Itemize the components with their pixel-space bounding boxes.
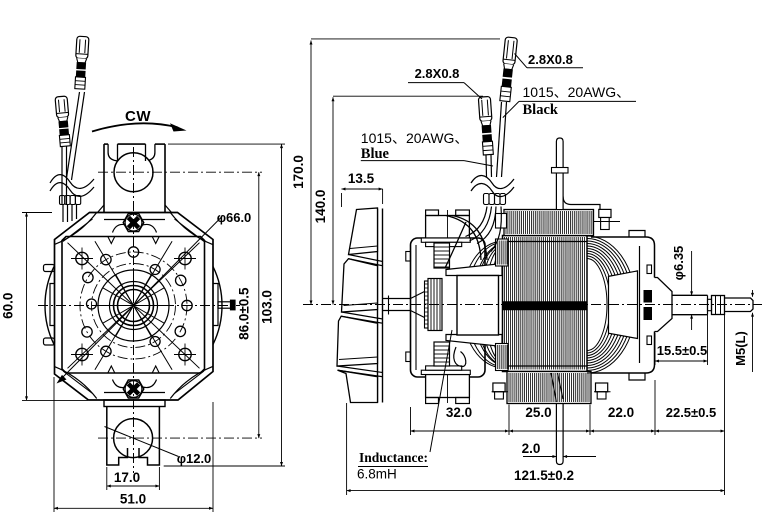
commutator — [425, 281, 429, 328]
dim 32.0 — [411, 430, 510, 432]
spade terminal D (side view, upper) — [499, 37, 518, 102]
threaded tip M5 — [725, 298, 754, 312]
front view: stator lamination square — [62, 237, 205, 374]
svg-text:140.0: 140.0 — [313, 190, 328, 224]
rear end bracket — [591, 237, 655, 373]
extended radial lines through holes — [95, 241, 172, 370]
left coil side stubs — [496, 239, 509, 266]
fan blade 2 — [342, 259, 378, 312]
svg-text:103.0: 103.0 — [260, 290, 275, 324]
svg-text:25.0: 25.0 — [525, 405, 551, 420]
brush holder boxes — [434, 243, 450, 268]
centerline overlays — [303, 304, 762, 306]
dim 51.0 — [53, 377, 55, 512]
svg-text:Black: Black — [523, 102, 559, 118]
wire loop below commutator — [454, 347, 466, 367]
shaft hex — [712, 296, 725, 315]
cable grommet (side view) — [484, 194, 490, 205]
plate chamfer inner flange lines — [63, 219, 93, 242]
front view centerlines — [38, 305, 240, 307]
front end-bracket housing — [411, 238, 486, 377]
svg-text:2.8X0.8: 2.8X0.8 — [415, 66, 460, 81]
dim 170.0 — [311, 38, 500, 40]
rivet holes inner ring — [150, 265, 160, 275]
bolt pitch circles (dash-dot) — [92, 264, 176, 348]
shaft end pin (front view) — [218, 302, 231, 308]
dim 60.0 — [22, 212, 52, 214]
brush lead wires — [452, 216, 487, 261]
svg-text:φ66.0: φ66.0 — [217, 210, 252, 225]
wire break squiggle (side view) — [471, 175, 514, 188]
fan blade 4 — [338, 370, 378, 402]
svg-text:CW: CW — [125, 108, 151, 125]
wires to terminals (side view) — [485, 155, 488, 177]
armature core — [457, 276, 499, 336]
svg-text:51.0: 51.0 — [120, 492, 146, 507]
dim 140.0 — [333, 95, 483, 97]
dim 13.5 — [341, 193, 343, 207]
lead wires (front view) — [61, 146, 63, 204]
mounting tab top — [556, 138, 563, 209]
cable grommet (front view) — [60, 196, 65, 205]
svg-text:1015、20AWG、: 1015、20AWG、 — [523, 84, 631, 100]
svg-text:86.0±0.5: 86.0±0.5 — [237, 287, 252, 340]
svg-text:170.0: 170.0 — [291, 155, 306, 189]
svg-text:13.5: 13.5 — [348, 171, 375, 186]
fan blade lip 1 — [349, 255, 383, 266]
bearing boss — [655, 278, 673, 332]
top bracket keyhole — [114, 153, 153, 192]
dim 103.0 — [168, 143, 285, 145]
stator core with lamination hatch — [503, 236, 588, 372]
coil block top — [504, 210, 594, 236]
svg-text:22.5±0.5: 22.5±0.5 — [666, 405, 717, 420]
field coil end turns right — [587, 259, 607, 351]
side pins on plate — [50, 284, 55, 326]
dim 22.0 — [590, 430, 655, 432]
svg-text:2.8X0.8: 2.8X0.8 — [528, 52, 573, 67]
svg-text:15.5±0.5: 15.5±0.5 — [657, 343, 708, 358]
radial spokes — [136, 305, 170, 307]
fan blade 3 — [337, 316, 378, 366]
bottom bracket keyhole — [114, 419, 153, 458]
fan blade lip 3 — [337, 366, 383, 377]
front view: housing circle arcs behind plate — [213, 267, 222, 345]
through bolts — [496, 214, 507, 229]
hex screw bottom — [123, 380, 144, 398]
cooling fan ring — [377, 209, 379, 403]
dim 17.0 — [106, 467, 108, 490]
svg-text:2.0: 2.0 — [522, 441, 541, 456]
bottom dims extension lines — [346, 403, 348, 495]
brush cap block bottom — [426, 375, 470, 398]
dim 15.5±0.5 — [654, 333, 656, 365]
dim 86.0±0.5 — [258, 172, 260, 438]
front view: octagonal end-plate outline — [55, 213, 214, 401]
svg-text:17.0: 17.0 — [114, 470, 140, 485]
spring claws top — [113, 224, 129, 232]
svg-text:φ12.0: φ12.0 — [177, 451, 212, 466]
shaft cone into commutator — [411, 292, 425, 299]
svg-text:121.5±0.2: 121.5±0.2 — [514, 468, 574, 483]
spade terminal A (front view) — [55, 96, 71, 147]
svg-text:60.0: 60.0 — [1, 293, 16, 319]
field coil end turns left — [495, 250, 503, 359]
bearing boss concentric circles — [118, 290, 150, 322]
spring claws bottom — [113, 380, 129, 388]
svg-text:1015、20AWG、: 1015、20AWG、 — [361, 130, 469, 146]
svg-text:Inductance:: Inductance: — [359, 450, 428, 465]
svg-text:6.8mH: 6.8mH — [357, 467, 397, 482]
shaft — [672, 294, 708, 296]
fan blade 1 — [349, 208, 378, 255]
svg-text:Blue: Blue — [361, 146, 390, 162]
hex screw top — [123, 214, 144, 232]
V notches — [108, 237, 115, 244]
dim M5(L) — [752, 290, 754, 297]
long diagonals through corner holes — [68, 243, 200, 369]
corner mounting holes with crosshairs — [76, 252, 88, 264]
brush cap block top — [426, 216, 470, 239]
slot wedges — [446, 264, 502, 276]
mounting tab bottom (2.0 foot) — [556, 404, 563, 465]
coil block bottom — [507, 372, 591, 404]
svg-text:32.0: 32.0 — [446, 405, 472, 420]
top mounting bracket — [103, 144, 105, 213]
svg-text:22.0: 22.0 — [608, 405, 634, 420]
svg-text:φ6.35: φ6.35 — [671, 246, 686, 281]
side view main centerline — [303, 304, 762, 306]
dim 25.0 — [509, 430, 590, 432]
rivet holes outer ring — [182, 300, 192, 310]
svg-text:M5(L): M5(L) — [733, 331, 748, 366]
spade terminal C (side view, lower) — [478, 96, 494, 155]
wire break squiggle (front view) — [50, 175, 94, 189]
dim 121.5±0.2 — [347, 490, 725, 492]
fan hub / shaft stub — [383, 298, 411, 300]
bottom mounting bracket — [104, 400, 165, 407]
spade terminal B (front view) — [74, 36, 89, 89]
ball bearing — [644, 291, 652, 303]
dim 22.5±0.5 — [655, 430, 725, 432]
fan blade lip 2 — [341, 312, 382, 323]
bearing hub cone — [609, 271, 638, 339]
shaft undercut — [708, 299, 712, 310]
rotor band (dark) — [503, 302, 587, 311]
side view lead wires — [466, 207, 488, 237]
